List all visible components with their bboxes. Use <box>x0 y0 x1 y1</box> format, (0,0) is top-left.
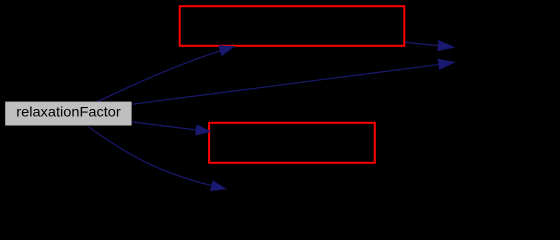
node truncated-2 (lower red box) <box>209 123 375 163</box>
edge relaxationFactor to right node <box>131 59 454 104</box>
svg-text:relaxationFactor: relaxationFactor <box>16 104 121 120</box>
edge relaxationFactor to top red box <box>98 46 234 102</box>
node relaxationFactor <box>5 102 131 126</box>
node truncated-1 (top red box) <box>180 6 405 46</box>
edge relaxationFactor to bottom node <box>88 127 225 191</box>
edge relaxationFactor to lower red box <box>132 122 210 135</box>
edge top red box to right node <box>405 41 454 51</box>
